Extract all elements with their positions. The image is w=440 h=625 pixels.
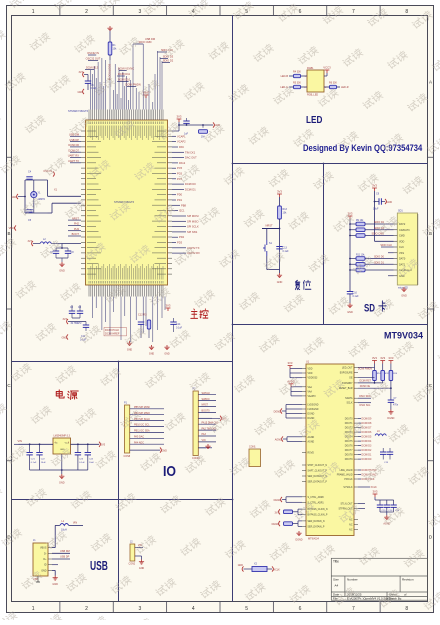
svg-text:IO: IO — [163, 463, 176, 479]
RGB LED U2 body — [307, 70, 324, 92]
frame column tick bottom — [59, 602, 61, 613]
MCU left pins — [81, 131, 86, 274]
frame column tick bottom — [379, 602, 381, 613]
ground below SD connector — [401, 287, 406, 292]
svg-text:VAA: VAA — [308, 390, 313, 393]
crystal Y1 circuit — [25, 179, 48, 181]
svg-text:SDIO D0: SDIO D0 — [374, 256, 385, 259]
svg-text:SDIO D1: SDIO D1 — [374, 261, 385, 264]
SD GND pin wire — [388, 275, 394, 277]
MT9V034 left pins — [302, 368, 306, 370]
svg-text:USB DM: USB DM — [60, 550, 70, 553]
svg-text:DCMI D9: DCMI D9 — [362, 418, 372, 421]
cap C6 left of top comb — [83, 72, 84, 77]
svg-text:OSC32 IN: OSC32 IN — [87, 51, 99, 55]
svg-text:SWCLK: SWCLK — [202, 392, 211, 395]
inductor L2 — [32, 241, 33, 246]
svg-text:DGND: DGND — [308, 414, 315, 416]
svg-text:DCMI D0: DCMI D0 — [185, 182, 196, 186]
svg-text:of: of — [404, 593, 407, 597]
VSS wire to bus — [388, 252, 394, 254]
wire LED-B — [289, 75, 307, 77]
svg-text:12MHz: 12MHz — [38, 198, 46, 201]
svg-text:PA12: PA12 — [179, 161, 186, 165]
svg-text:OE: OE — [349, 378, 353, 380]
svg-text:3V3: 3V3 — [79, 71, 84, 74]
svg-text:DCMI D5: DCMI D5 — [362, 436, 372, 439]
svg-text:SYSCLK: SYSCLK — [343, 487, 353, 489]
svg-text:R5 300: R5 300 — [293, 82, 301, 85]
ground below MCU 1 — [127, 341, 132, 346]
section divider horizontal power/USB — [12, 499, 233, 501]
svg-text:LVDSGND: LVDSGND — [308, 405, 319, 407]
left mid label column — [68, 219, 81, 221]
svg-text:BOOT0: BOOT0 — [202, 410, 211, 413]
svg-text:3: 3 — [139, 9, 142, 15]
ground VDDA filter — [59, 262, 64, 267]
svg-text:PA4 ADC: PA4 ADC — [134, 441, 144, 444]
svg-text:LED-R: LED-R — [341, 86, 349, 89]
section label 复位 — [295, 280, 311, 289]
wires from control pins — [358, 366, 375, 368]
svg-text:5: 5 — [245, 606, 248, 612]
svg-text:LVDSGND: LVDSGND — [308, 409, 319, 411]
capacitor C12 — [138, 322, 144, 324]
svg-text:PD3: PD3 — [177, 241, 183, 245]
svg-text:DGND: DGND — [295, 539, 302, 542]
svg-text:USB: USB — [90, 559, 108, 573]
svg-text:DCMI D8: DCMI D8 — [362, 422, 372, 425]
MCU bottom pin numbers — [89, 281, 163, 284]
svg-text:DCMI OE: DCMI OE — [360, 385, 371, 388]
svg-text:470n: 470n — [393, 405, 399, 407]
svg-text:STANDBY: STANDBY — [342, 382, 353, 385]
ground below C10 — [347, 303, 352, 308]
svg-text:2: 2 — [85, 9, 88, 15]
wire — [109, 55, 111, 60]
svg-text:3V3: 3V3 — [372, 184, 377, 188]
svg-text:10uF: 10uF — [89, 462, 95, 464]
svg-text:NC: NC — [349, 530, 353, 532]
C7 cap chain — [390, 388, 392, 400]
section label 主控 — [191, 309, 208, 319]
svg-text:7: 7 — [352, 9, 355, 15]
svg-text:3: 3 — [139, 606, 142, 612]
SDATA SCLK wires — [358, 397, 371, 399]
ground regulator — [59, 474, 64, 479]
MCU U1 main controller body — [86, 120, 168, 285]
wires below MCU — [92, 297, 165, 343]
svg-text:3V3: 3V3 — [277, 190, 282, 194]
svg-text:SDIO D2: SDIO D2 — [163, 59, 174, 63]
svg-text:A: A — [429, 79, 432, 84]
card detect wire — [350, 269, 356, 271]
svg-text:DAC OUT: DAC OUT — [185, 156, 197, 160]
svg-text:CLK: CLK — [399, 246, 404, 249]
svg-text:GND: GND — [149, 353, 155, 356]
svg-text:SWDIO: SWDIO — [202, 398, 210, 401]
svg-text:CON2: CON2 — [129, 563, 136, 566]
svg-text:SER_DATAIN_N: SER_DATAIN_N — [308, 520, 325, 523]
VBUS wire to inductor — [52, 547, 55, 549]
IO header P2 body — [193, 391, 198, 456]
resistor R4 300 — [294, 74, 301, 77]
svg-text:NC: NC — [349, 520, 353, 522]
svg-text:RESET_BAR: RESET_BAR — [339, 387, 353, 390]
frame row tick right — [428, 156, 434, 158]
capacitor C9 — [375, 196, 382, 198]
right control resistors — [372, 361, 377, 364]
svg-text:DAT2: DAT2 — [399, 223, 406, 226]
svg-text:VCC3: VCC3 — [323, 66, 331, 70]
svg-text:1uF: 1uF — [184, 133, 189, 136]
inductor L1 — [60, 523, 69, 525]
wire LED-G — [289, 86, 307, 88]
wire bundle above MCU — [91, 44, 163, 110]
net labels above MCU left — [88, 54, 96, 56]
ground below left pins — [296, 531, 301, 536]
svg-text:VBAT: VBAT — [9, 227, 16, 230]
svg-text:GND: GND — [162, 449, 168, 452]
svg-text:DGND: DGND — [308, 418, 315, 420]
svg-text:RGB1: RGB1 — [307, 67, 314, 70]
svg-text:Designed By Kevin QQ:97354734: Designed By Kevin QQ:97354734 — [303, 142, 422, 153]
svg-text:NRST: NRST — [202, 404, 209, 407]
svg-text:I2C1: I2C1 — [179, 209, 185, 213]
svg-text:DOUT1: DOUT1 — [345, 423, 354, 425]
bottom join wire — [267, 269, 280, 271]
svg-text:DGND: DGND — [387, 417, 394, 420]
svg-text:PIXCLK: PIXCLK — [344, 479, 353, 481]
power 3V3 right of MCU — [177, 119, 182, 122]
resistor R6 300 — [330, 85, 337, 88]
svg-text:PC6: PC6 — [177, 172, 183, 176]
bottom left cap cluster — [67, 319, 68, 324]
svg-text:PA3: PA3 — [202, 433, 207, 436]
svg-text:DCMI PWDN: DCMI PWDN — [358, 368, 372, 371]
main power rail wire — [19, 443, 54, 445]
svg-text:DOUT2: DOUT2 — [345, 428, 354, 430]
svg-text:Revision: Revision — [402, 578, 414, 582]
svg-text:GND: GND — [41, 569, 47, 572]
frame column tick bottom — [326, 602, 328, 613]
svg-text:STM32F746IGT6: STM32F746IGT6 — [68, 109, 89, 113]
svg-text:3V3: 3V3 — [101, 443, 106, 447]
resistor R2 1M — [199, 130, 208, 134]
svg-text:SDATA: SDATA — [345, 397, 353, 400]
svg-text:DCMI HREF: DCMI HREF — [105, 332, 120, 336]
VAA group wires — [291, 386, 302, 388]
svg-text:LED: LED — [306, 113, 323, 125]
frame row tick right — [428, 308, 434, 310]
svg-text:DGND: DGND — [274, 411, 282, 414]
power VCC for LED — [325, 70, 330, 73]
GND node P1 — [160, 448, 161, 453]
resistor R3 — [147, 320, 150, 329]
SD pullup resistors group 1 — [350, 223, 356, 225]
svg-text:GND: GND — [139, 567, 145, 570]
svg-text:LED_OUT: LED_OUT — [342, 367, 353, 369]
svg-text:VDDIO33: VDDIO33 — [308, 378, 319, 380]
svg-text:TIM CK1: TIM CK1 — [185, 150, 196, 154]
svg-text:SER_DATAIN_P: SER_DATAIN_P — [308, 525, 325, 528]
frame column tick top — [59, 6, 61, 16]
STLN STFRM wires — [358, 503, 365, 505]
svg-text:NC: NC — [349, 525, 353, 527]
ground J2 — [139, 560, 144, 565]
svg-text:PB5 SPI MOSI: PB5 SPI MOSI — [134, 406, 150, 409]
MT9V034 right pins — [354, 366, 358, 368]
vertical bus wire — [349, 219, 351, 291]
S_CTRL wires — [286, 496, 302, 498]
svg-text:4: 4 — [192, 606, 195, 612]
capacitor C5 — [26, 210, 32, 212]
frame column tick top — [379, 6, 381, 16]
svg-text:R6 300: R6 300 — [329, 82, 337, 85]
USB shield pin — [37, 576, 39, 582]
svg-text:RGB_LED: RGB_LED — [307, 94, 318, 97]
svg-text:PH2: PH2 — [74, 222, 80, 226]
svg-text:OSC32 OUT: OSC32 OUT — [86, 57, 101, 61]
svg-text:VAA: VAA — [308, 386, 313, 389]
frame column tick bottom — [272, 602, 274, 613]
wire 3V3 to VDD pin — [374, 191, 376, 241]
power flag above comb — [144, 95, 149, 98]
svg-text:DCMI D6: DCMI D6 — [362, 431, 372, 434]
svg-text:VDD: VDD — [399, 240, 404, 243]
svg-text:AGND: AGND — [308, 440, 315, 443]
svg-text:R9 10k: R9 10k — [356, 220, 364, 222]
frame column tick top — [166, 6, 168, 16]
svg-text:R11 10k: R11 10k — [356, 255, 365, 257]
svg-text:GND: GND — [401, 295, 407, 298]
MT9V034 U3 body — [306, 364, 354, 536]
svg-text:MT9V034: MT9V034 — [384, 331, 423, 341]
svg-text:MT9V034: MT9V034 — [308, 538, 319, 541]
GND node P2 — [198, 447, 206, 449]
svg-text:A4: A4 — [335, 584, 339, 588]
svg-text:DOUT6: DOUT6 — [345, 446, 354, 448]
frame row tick left — [7, 156, 12, 158]
crystal X2 body — [252, 567, 267, 572]
wire to NRST node — [279, 219, 281, 270]
3V3 node P2 — [198, 417, 220, 419]
svg-text:PD2: PD2 — [179, 235, 185, 239]
frame column tick bottom — [112, 602, 114, 613]
svg-text:DCMI D13: DCMI D13 — [86, 66, 99, 70]
ground above MCU — [107, 26, 112, 31]
svg-text:1: 1 — [32, 606, 35, 612]
svg-text:UART TX: UART TX — [68, 159, 79, 163]
svg-text:R4 300: R4 300 — [293, 71, 301, 74]
power 3V3 SD top — [372, 188, 377, 191]
frame column tick top — [272, 6, 274, 16]
power 3V3 SD bus — [348, 216, 353, 219]
svg-text:DCMI D1: DCMI D1 — [185, 187, 196, 191]
svg-text:DOUT8: DOUT8 — [345, 455, 354, 457]
svg-text:0.1uF: 0.1uF — [79, 462, 85, 464]
svg-text:DOUT0: DOUT0 — [345, 419, 354, 421]
svg-text:VIN: VIN — [73, 521, 77, 525]
svg-text:USB DP: USB DP — [69, 138, 79, 142]
GND wire — [52, 569, 55, 571]
valid/pixclk wires — [358, 469, 361, 471]
capacitor C4 — [26, 177, 32, 179]
resistor R13 10k — [279, 197, 281, 206]
svg-text:BYPASS_CLKIN_P: BYPASS_CLKIN_P — [308, 514, 328, 517]
svg-text:CMD: CMD — [399, 235, 405, 238]
MCU top pin numbers — [89, 122, 163, 125]
svg-text:DCMI D0: DCMI D0 — [362, 458, 372, 461]
ID stub — [52, 564, 58, 566]
svg-text:STFRM_OUT: STFRM_OUT — [338, 509, 353, 511]
svg-text:DCMI RST: DCMI RST — [359, 379, 371, 382]
svg-text:LED-B: LED-B — [281, 75, 289, 78]
frame column tick top — [112, 6, 114, 16]
svg-text:XCLK: XCLK — [371, 486, 378, 489]
svg-text:3V3: 3V3 — [166, 304, 171, 308]
J2 wires — [135, 547, 143, 549]
power below MCU right — [166, 308, 171, 311]
frame column tick bottom — [219, 602, 221, 613]
svg-text:3V3: 3V3 — [288, 361, 293, 365]
svg-text:Size: Size — [333, 578, 339, 582]
node right of MCU — [213, 122, 214, 127]
section label 电源 — [56, 390, 78, 399]
svg-text:1: 1 — [32, 9, 35, 15]
ground below MCU 2 — [149, 345, 154, 350]
MCU bottom pin comb — [89, 285, 163, 297]
svg-text:DCMI PWDN: DCMI PWDN — [125, 83, 140, 87]
svg-text:GND: GND — [127, 349, 133, 352]
svg-text:2: 2 — [85, 606, 88, 612]
svg-text:EXPOSURE: EXPOSURE — [340, 373, 353, 375]
ground below MCU 3 — [164, 345, 169, 350]
svg-text:3V3: 3V3 — [63, 318, 68, 321]
section divider vertical power/IO — [118, 362, 120, 602]
svg-text:C12 R3: C12 R3 — [138, 314, 147, 317]
svg-text:VBUS: VBUS — [40, 547, 47, 550]
svg-text:GND: GND — [59, 270, 65, 273]
svg-text:GND: GND — [59, 482, 65, 485]
capacitor C10 bottom — [347, 292, 353, 294]
power connector J2 body — [130, 544, 135, 561]
IO header P1 pin wires — [130, 408, 164, 410]
svg-text:GND: GND — [11, 196, 17, 199]
svg-text:GND: GND — [387, 201, 393, 204]
svg-text:SER_DATAOUT_P: SER_DATAOUT_P — [308, 481, 328, 484]
IO header P2 pin wires — [198, 394, 216, 396]
frame row tick left — [7, 308, 12, 310]
svg-text:6: 6 — [299, 9, 302, 15]
IO header P1 body — [125, 405, 130, 453]
svg-text:VIN: VIN — [202, 439, 206, 442]
power 3V3 reset — [277, 194, 282, 197]
crystal Y1 — [31, 192, 37, 198]
right red net label column — [172, 135, 176, 137]
svg-text:3V3: 3V3 — [28, 240, 33, 243]
NRST net wire — [262, 228, 280, 230]
svg-text:PA5 DAC: PA5 DAC — [134, 436, 144, 439]
svg-text:DCMI VSYNC: DCMI VSYNC — [118, 67, 134, 71]
svg-text:Number: Number — [347, 578, 358, 582]
section divider vertical main — [232, 16, 234, 602]
section divider horizontal MCU/power — [12, 361, 233, 363]
crystal X2 circuit bottom — [242, 566, 243, 571]
ground P2 — [205, 444, 210, 449]
USB connector J1 body — [33, 543, 48, 576]
svg-text:VAAPIX: VAAPIX — [308, 395, 317, 398]
svg-text:PB8: PB8 — [181, 203, 186, 207]
DGND group wires — [286, 404, 302, 406]
resistor R1 — [108, 42, 112, 55]
svg-text:0.1uF: 0.1uF — [176, 327, 183, 330]
svg-text:USB DP: USB DP — [60, 556, 70, 559]
svg-text:GND: GND — [77, 91, 83, 94]
section divider horizontal SD/MT9V034 — [233, 324, 428, 326]
svg-text:DCMI D11: DCMI D11 — [118, 72, 130, 76]
svg-text:DSCI SCL: DSCI SCL — [359, 404, 371, 407]
svg-text:STLN_OUT: STLN_OUT — [341, 504, 354, 506]
capacitor C11 — [83, 325, 89, 327]
svg-text:B: B — [7, 231, 10, 236]
SDIO CLK wire — [381, 246, 394, 248]
resistor R5 300 — [294, 85, 301, 88]
svg-text:10uF: 10uF — [41, 462, 47, 464]
svg-text:DCMI D10: DCMI D10 — [118, 78, 131, 82]
svg-text:D-: D- — [44, 552, 47, 555]
svg-text:ID: ID — [44, 564, 47, 567]
frame row tick right — [428, 460, 434, 462]
svg-text:DGND: DGND — [274, 499, 282, 502]
power 3V3 MT9V034 VDD — [288, 366, 293, 369]
svg-text:PD0: PD0 — [177, 193, 183, 197]
capacitor C7 mt9v — [388, 400, 394, 402]
svg-text:NRST: NRST — [72, 216, 79, 220]
resistor R15 — [284, 510, 293, 514]
svg-text:DCMI PCLK: DCMI PCLK — [105, 328, 119, 332]
svg-text:BOOT: BOOT — [72, 232, 80, 236]
ground C7 — [388, 410, 393, 415]
VDD group wires — [290, 368, 302, 370]
svg-text:Title: Title — [333, 560, 339, 564]
svg-text:3V3: 3V3 — [388, 356, 393, 360]
power 3V3 right caps — [373, 494, 378, 497]
svg-text:8: 8 — [405, 606, 408, 612]
svg-text:NRST: NRST — [265, 224, 272, 228]
svg-text:10uF: 10uF — [373, 208, 379, 211]
frame row tick left — [7, 460, 12, 462]
svg-text:VCAP2: VCAP2 — [177, 140, 186, 144]
svg-text:LINE_VALID: LINE_VALID — [340, 469, 353, 472]
svg-text:SDIO CLK: SDIO CLK — [380, 244, 392, 247]
svg-text:DCMI D3: DCMI D3 — [362, 445, 372, 448]
svg-text:SPI MOSI: SPI MOSI — [187, 214, 199, 218]
resistor R16 — [284, 522, 293, 526]
svg-text:DOUT7: DOUT7 — [345, 450, 354, 452]
section divider horizontal LED/reset — [233, 163, 428, 165]
svg-text:3V3: 3V3 — [380, 356, 385, 360]
svg-text:LM3940IMP-3.3: LM3940IMP-3.3 — [54, 436, 71, 438]
svg-text:XCLK: XCLK — [274, 569, 281, 572]
svg-text:VIN: VIN — [18, 439, 22, 443]
title block — [331, 558, 427, 600]
svg-text:AGND: AGND — [308, 436, 315, 439]
svg-text:0.1uF: 0.1uF — [31, 462, 37, 464]
wire — [109, 31, 111, 42]
GND arrow right of C9 — [385, 199, 386, 204]
svg-text:GND: GND — [238, 564, 244, 567]
